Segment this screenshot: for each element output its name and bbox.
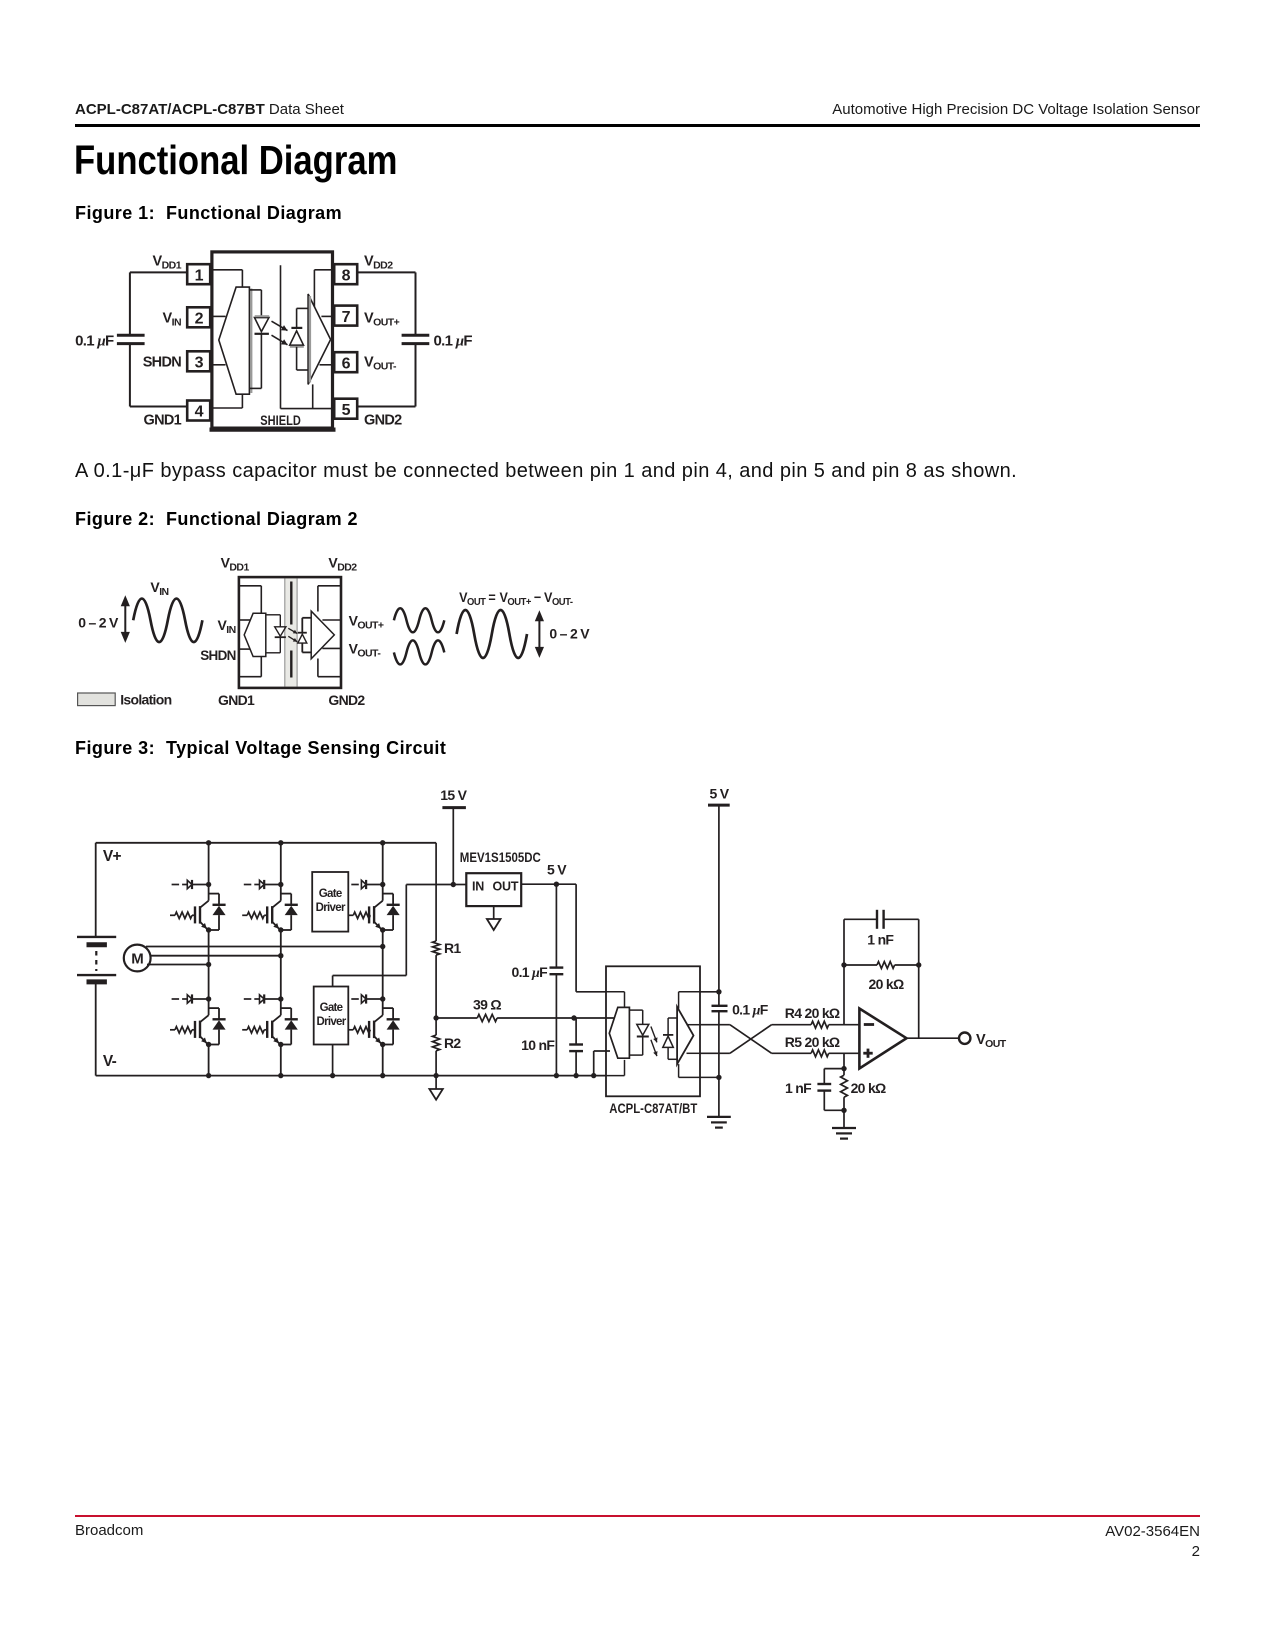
svg-text:6: 6: [342, 355, 351, 372]
label 1 nF filter: [785, 1080, 812, 1096]
svg-text:0.1 μF: 0.1 μF: [75, 332, 114, 349]
DC bus V+ rail: [96, 842, 436, 844]
fig2 label VIN pin: [217, 617, 235, 636]
label R5 20 kohm: [785, 1034, 840, 1050]
svg-text:0.1 μF: 0.1 μF: [511, 964, 548, 981]
chip optical arrows: [651, 1027, 658, 1057]
inverter leg at x=208.6: [206, 840, 211, 1078]
fig2 LED: [275, 627, 286, 637]
svg-text:1 nF: 1 nF: [785, 1080, 812, 1096]
svg-text:R5 20 kΩ: R5 20 kΩ: [785, 1034, 840, 1050]
pin 2 box: [187, 307, 210, 327]
svg-text:5: 5: [342, 402, 351, 419]
filter resistor 20k to ground: [841, 1069, 848, 1113]
pin 8 box: [334, 264, 357, 284]
svg-text:VOUT+: VOUT+: [364, 311, 400, 329]
motor phase wire V: [151, 955, 281, 957]
capacitor 0.1uF input side: [550, 884, 564, 1078]
svg-text:Gate: Gate: [319, 888, 342, 900]
internal wire pin2: [213, 315, 226, 317]
svg-text:SHDN: SHDN: [200, 648, 235, 663]
figure 1 caption: [75, 203, 342, 224]
wire 5V to chip VDD1: [576, 884, 606, 992]
svg-text:GND1: GND1: [144, 413, 182, 429]
page heading: [74, 137, 397, 184]
op-amp output wire: [907, 1037, 960, 1039]
figure 3 caption: [75, 738, 446, 759]
svg-text:Gate: Gate: [320, 1002, 343, 1014]
chip sigma-delta modulator: [609, 1007, 629, 1058]
fig2 label VDD1: [221, 555, 250, 574]
svg-text:R4 20 kΩ: R4 20 kΩ: [785, 1005, 840, 1021]
ground op-amp filter: [832, 1110, 856, 1138]
input sine VIN: [133, 599, 202, 643]
wire pin8 to right cap: [357, 272, 415, 334]
label 0-2 V output: [549, 626, 590, 642]
label R1: [444, 940, 461, 956]
resistor 39 ohm: [436, 1014, 614, 1021]
header rule: [75, 124, 1200, 127]
internal wire pin8 to amp: [314, 270, 332, 307]
header right: subtitle: [832, 101, 1200, 118]
resistor R5 20k: [772, 1050, 860, 1057]
fig2 label GND2: [328, 692, 365, 708]
optical arrow 2: [272, 335, 288, 345]
svg-text:VDD1: VDD1: [221, 555, 250, 574]
label SHIELD: [260, 413, 301, 428]
footer right doc number: [1105, 1522, 1200, 1562]
svg-text:0.1 μF: 0.1 μF: [732, 1002, 769, 1019]
capacitor 10 nF: [569, 1018, 583, 1078]
waveform VOUT+ small: [394, 608, 444, 632]
svg-text:VIN: VIN: [217, 617, 235, 636]
capacitor C2 0.1uF right: [402, 335, 430, 343]
fig2 LED bracket: [266, 615, 281, 653]
wire VOUT+ crossover: [700, 1025, 772, 1054]
svg-text:OUT: OUT: [493, 880, 519, 894]
motor phase wire W: [147, 964, 209, 966]
label VDD1: [153, 254, 182, 272]
feedback vertical wires: [844, 965, 919, 1038]
svg-text:0 – 2 V: 0 – 2 V: [78, 615, 119, 631]
svg-text:Isolation: Isolation: [120, 691, 171, 707]
internal wire pin6: [320, 364, 333, 366]
label 20 kohm feedback: [869, 976, 904, 992]
optical arrow 1: [272, 321, 288, 330]
transistor Q1 (IGBT with anti-parallel diode): [170, 880, 226, 933]
label SHDN: [143, 355, 182, 371]
footer rule: [75, 1515, 1200, 1517]
body paragraph: [75, 460, 1017, 483]
label 0.1 uF right: [434, 332, 473, 349]
R1 divider top: [433, 843, 440, 1018]
chip internal VDD1 wire: [606, 992, 625, 1007]
resistor R4 20k: [772, 1021, 860, 1028]
svg-text:GND1: GND1: [218, 692, 255, 708]
waveform VOUT- small: [394, 640, 444, 664]
svg-text:2: 2: [195, 311, 204, 328]
fig2 label VDD2: [328, 555, 357, 574]
motor phase wire U: [146, 946, 383, 948]
label VIN waveform: [150, 579, 168, 598]
regulator MEV1S1505DC: [466, 873, 521, 906]
label 20 kohm filter: [851, 1080, 886, 1096]
pin 5 box: [334, 399, 357, 419]
svg-text:VDD2: VDD2: [328, 555, 357, 574]
chip internal GND1 wire: [606, 1060, 625, 1076]
output amplifier triangle: [308, 294, 331, 384]
DC bus V- rail: [96, 1075, 606, 1077]
internal wire pin3: [213, 364, 226, 366]
internal wire pin7: [321, 315, 332, 317]
label VOUT-: [364, 355, 397, 373]
fig2 sigma-delta modulator: [244, 613, 266, 656]
label ACPL-C87AT/BT: [609, 1101, 698, 1116]
inverter leg at x=280.8: [278, 840, 283, 1078]
svg-text:5 V: 5 V: [709, 786, 729, 802]
feedback resistor 20k: [841, 962, 921, 969]
isolation legend swatch: [78, 693, 116, 706]
svg-text:7: 7: [342, 309, 351, 326]
label R4 20 kohm: [785, 1005, 840, 1021]
svg-text:VIN: VIN: [162, 311, 181, 329]
svg-text:0 – 2 V: 0 – 2 V: [549, 626, 590, 642]
label 1 nF feedback: [867, 932, 894, 948]
wire pin4 to left cap: [130, 345, 187, 407]
svg-text:VOUT =: VOUT =: [459, 589, 496, 608]
gate driver 2 ground stub: [330, 1045, 335, 1079]
label V+: [103, 848, 122, 865]
wire pin1 to left cap: [130, 272, 187, 334]
input range arrow: [121, 595, 130, 643]
chip LED bracket: [629, 1010, 642, 1055]
label GND1: [144, 413, 182, 429]
svg-text:IN: IN: [472, 880, 484, 894]
svg-text:Driver: Driver: [316, 902, 346, 914]
svg-text:VDD2: VDD2: [364, 254, 393, 272]
pin 7 box: [334, 306, 357, 326]
internal wire pin5 / shield: [281, 384, 333, 408]
wire VOUT- crossover: [700, 1025, 772, 1054]
fig2 chip box: [239, 577, 341, 688]
svg-text:0.1 μF: 0.1 μF: [434, 332, 473, 349]
label 0-2 V input: [78, 615, 119, 631]
fig2 modulator wires: [239, 586, 261, 677]
transistor Q6 (IGBT with anti-parallel diode): [348, 994, 399, 1047]
svg-text:VOUT: VOUT: [976, 1032, 1007, 1050]
label VIN: [162, 311, 181, 329]
pin 4 box: [187, 401, 210, 421]
transistor Q4 (IGBT with anti-parallel diode): [242, 994, 298, 1047]
sigma-delta modulator shape: [219, 287, 251, 394]
svg-text:ACPL-C87AT/BT: ACPL-C87AT/BT: [609, 1101, 698, 1116]
footer left: [75, 1522, 143, 1539]
svg-text:20 kΩ: 20 kΩ: [869, 976, 904, 992]
chip LED: [637, 1024, 649, 1036]
chip output amplifier: [677, 1007, 693, 1064]
photodiode D2: [290, 328, 304, 347]
chip VOUT- internal: [687, 1052, 701, 1054]
svg-text:4: 4: [195, 404, 204, 421]
svg-text:R2: R2: [444, 1035, 461, 1051]
SHDN tie stub: [591, 1051, 610, 1078]
battery stack: [77, 843, 116, 1076]
chip VOUT+ internal: [687, 1024, 701, 1026]
R2 divider bottom: [433, 1015, 440, 1078]
feedback capacitor 1 nF: [844, 910, 919, 965]
pin 1 box: [187, 264, 210, 284]
label 0.1 uF left: [75, 332, 114, 349]
capacitor 0.1uF output side: [712, 1006, 728, 1117]
op-isolator IC U1 body: [210, 252, 336, 430]
chip photodiode bracket: [668, 1018, 677, 1059]
photodiode bracket: [297, 308, 309, 370]
internal wire pin1 to modulator: [213, 270, 242, 287]
svg-text:VOUT+ −: VOUT+ −: [500, 589, 542, 608]
svg-text:VOUT-: VOUT-: [544, 589, 573, 608]
fig2 label VOUT-: [349, 640, 382, 659]
svg-text:1: 1: [195, 267, 204, 284]
fig2 photodiode bracket: [302, 618, 311, 653]
svg-text:SHIELD: SHIELD: [260, 413, 301, 428]
label VOUT+: [364, 311, 400, 329]
label 10 nF: [521, 1037, 555, 1053]
label R2: [444, 1035, 461, 1051]
formula VOUT = VOUT+ - VOUT-: [459, 589, 573, 608]
ACPL-C87AT/BT box: [606, 966, 700, 1096]
output terminal circle: [959, 1033, 970, 1044]
svg-text:VOUT+: VOUT+: [349, 612, 384, 631]
svg-text:Driver: Driver: [316, 1016, 346, 1028]
svg-text:R1: R1: [444, 940, 461, 956]
svg-text:GND2: GND2: [364, 413, 402, 429]
wire 15V to regulator IN: [453, 884, 466, 886]
isolation band: [285, 579, 297, 687]
transistor Q3 (IGBT with anti-parallel diode): [242, 880, 298, 933]
label MEV1S1505DC: [460, 850, 541, 865]
header left: document title: [75, 101, 344, 118]
label 0.1 uF input: [511, 964, 548, 981]
chip photodiode: [663, 1035, 674, 1048]
internal wire pin4 to modulator: [213, 394, 242, 408]
svg-text:V+: V+: [103, 848, 122, 865]
figure 2 caption: [75, 509, 358, 530]
transistor Q2 (IGBT with anti-parallel diode): [170, 994, 226, 1047]
pin 3 box: [187, 351, 210, 371]
label 5 V at regulator: [547, 862, 567, 878]
wire pin5 to right cap: [357, 345, 415, 407]
svg-text:39 Ω: 39 Ω: [473, 997, 501, 1013]
LED D1: [255, 316, 270, 334]
svg-text:VIN: VIN: [150, 579, 168, 598]
label GND2: [364, 413, 402, 429]
chip internal VDD2 wire: [679, 992, 700, 1009]
fig2 optical arrows: [288, 628, 297, 642]
5V supply right: [708, 786, 730, 1006]
svg-text:20 kΩ: 20 kΩ: [851, 1080, 886, 1096]
gate driver 2 supply wire: [333, 885, 454, 987]
svg-text:10 nF: 10 nF: [521, 1037, 555, 1053]
wire chip VDD2 to 5V rail: [700, 989, 722, 994]
label 39 ohm: [473, 997, 501, 1013]
svg-text:VDD1: VDD1: [153, 254, 182, 272]
isolation barrier line: [280, 265, 282, 408]
pin 6 box: [334, 352, 357, 372]
motor M: [124, 945, 151, 972]
chip internal GND2 wire: [679, 1064, 719, 1077]
fig2 label SHDN: [200, 648, 235, 663]
LED drive bracket: [249, 290, 261, 389]
ground output side: [707, 1117, 731, 1128]
isolation legend label: [120, 691, 171, 707]
waveform VOUT large: [457, 610, 527, 658]
fig2 amp wires: [318, 586, 341, 677]
svg-text:VOUT-: VOUT-: [364, 355, 397, 373]
label V-: [103, 1053, 117, 1070]
svg-text:15 V: 15 V: [440, 787, 467, 803]
svg-text:MEV1S1505DC: MEV1S1505DC: [460, 850, 541, 865]
fig2 label GND1: [218, 692, 255, 708]
regulator ground: [487, 906, 501, 930]
svg-text:VOUT-: VOUT-: [349, 640, 382, 659]
gate driver 2 box: [314, 987, 349, 1045]
fig2 output amplifier: [311, 611, 334, 659]
fig2 label VOUT+: [349, 612, 384, 631]
fig2 photodiode: [298, 633, 307, 643]
svg-text:3: 3: [195, 355, 204, 372]
svg-text:SHDN: SHDN: [143, 355, 182, 371]
gate driver 1 box: [312, 872, 348, 932]
svg-text:V-: V-: [103, 1053, 117, 1070]
capacitor C1 0.1uF left: [117, 335, 145, 343]
svg-text:M: M: [131, 951, 143, 968]
wire regulator OUT to 5V node: [521, 882, 576, 887]
svg-text:1 nF: 1 nF: [867, 932, 894, 948]
filter 1 nF to ground: [817, 1053, 846, 1110]
15V supply: [440, 787, 467, 887]
transistor Q5 (IGBT with anti-parallel diode): [348, 880, 399, 933]
ground arrow under divider: [429, 1076, 442, 1100]
op-amp U2: [859, 1009, 906, 1069]
svg-text:GND2: GND2: [328, 692, 365, 708]
label VOUT output: [976, 1032, 1007, 1050]
inverter leg at x=382.7: [380, 840, 385, 1078]
svg-text:8: 8: [342, 267, 351, 284]
label VDD2: [364, 254, 393, 272]
label 0.1 uF output: [732, 1002, 769, 1019]
svg-text:5 V: 5 V: [547, 862, 567, 878]
output range arrow: [535, 610, 544, 658]
